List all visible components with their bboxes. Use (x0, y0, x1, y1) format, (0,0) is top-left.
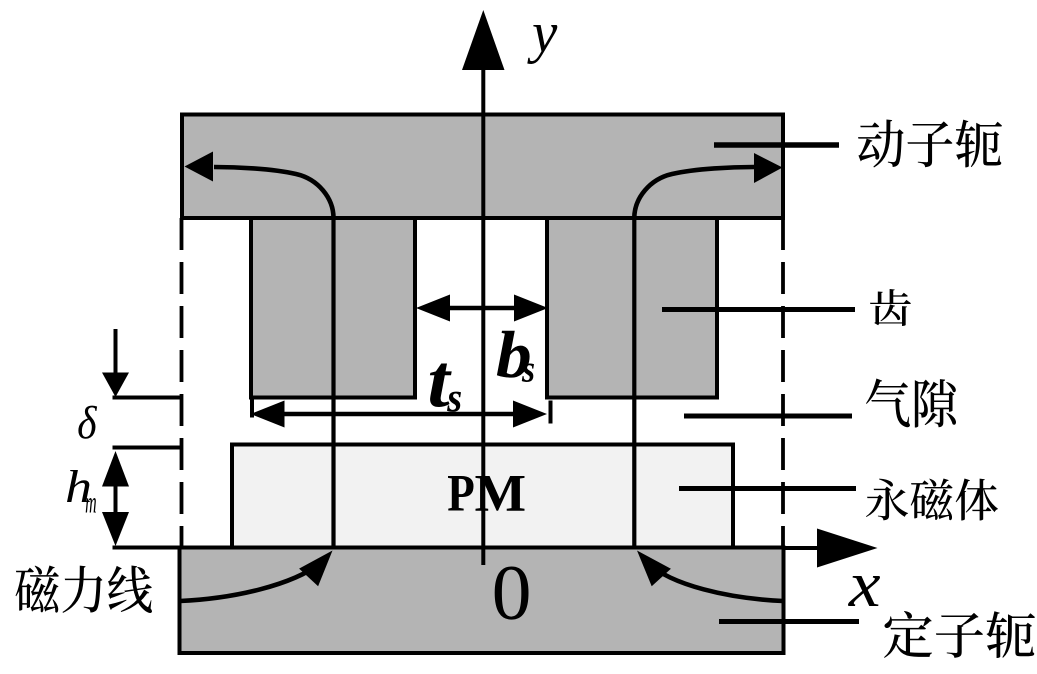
tick tooth bottom level (113, 396, 183, 400)
hm shaft (114, 484, 118, 513)
dimension bs line (424, 306, 540, 311)
axis label x (848, 576, 880, 606)
hm down arrowhead (102, 512, 129, 546)
left dashed boundary line (180, 218, 184, 547)
bs left arrowhead (416, 295, 450, 322)
hm up arrowhead (102, 451, 129, 487)
flux arrowhead bottom-right (637, 551, 671, 587)
delta pointer line (114, 329, 118, 374)
label text air gap (qi-xi) (866, 378, 956, 427)
dimension ts line (258, 412, 538, 417)
label text flux lines (ci-li-xian) (16, 566, 152, 613)
pointer line to stator yoke label (719, 619, 859, 624)
label delta (78, 406, 97, 439)
flux arrowhead top-right (754, 153, 783, 183)
origin label 0 (495, 567, 529, 620)
right tooth (547, 218, 717, 398)
flux curve bottom-left (180, 563, 321, 601)
label text tooth (chi) (870, 289, 911, 326)
bs right arrowhead (514, 295, 548, 322)
label text permanent magnet (yong-ci-ti) (866, 479, 998, 521)
label t (430, 364, 452, 407)
pointer line to mover yoke label (714, 142, 839, 148)
flux curve bottom-right (648, 563, 783, 601)
delta arrowhead (102, 373, 129, 398)
x axis arrowhead (817, 529, 878, 568)
y axis arrowhead (462, 10, 505, 70)
ts right arrowhead (513, 401, 547, 428)
x axis line (783, 546, 823, 550)
pointer line to PM label (679, 486, 856, 491)
pointer line to tooth label (662, 307, 855, 312)
flux line right vertical (632, 218, 636, 547)
label text stator yoke (ding-zi-e) (884, 611, 1035, 658)
right dashed boundary line (781, 218, 785, 547)
ts right tick (549, 401, 553, 424)
mover yoke (top rectangle) (182, 115, 783, 219)
pointer line to air gap label (684, 414, 852, 419)
permanent magnet PM (232, 445, 733, 548)
stator yoke (bottom rectangle) (180, 548, 784, 654)
flux curve top-left (214, 167, 334, 218)
label h (67, 470, 90, 502)
tick PM top level (113, 446, 182, 450)
flux arrowhead bottom-left (299, 551, 332, 587)
flux arrowhead top-left (185, 152, 214, 182)
flux line left vertical (331, 218, 335, 547)
label PM (448, 476, 473, 511)
axis label y (527, 25, 557, 64)
y axis line (481, 58, 485, 565)
wire: yoke bottom edge over teeth (182, 216, 783, 220)
label text mover yoke (dong-zi-e) (858, 119, 1002, 167)
left tooth (251, 218, 415, 398)
ts left arrowhead (251, 401, 285, 428)
ts left tick (250, 398, 254, 418)
tick PM bottom level (113, 546, 182, 550)
label b (497, 331, 530, 378)
flux curve top-right (634, 167, 754, 218)
